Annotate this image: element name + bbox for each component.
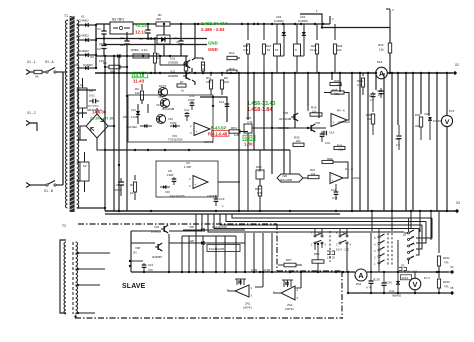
svg-text:R101: R101 — [443, 256, 450, 260]
svg-text:TG3110325: TG3110325 — [168, 138, 183, 142]
svg-text:C11: C11 — [184, 108, 189, 112]
svg-text:R100: R100 — [443, 280, 450, 284]
svg-text:+: + — [195, 183, 197, 187]
svg-text:28.8V - 47.8V: 28.8V - 47.8V — [90, 116, 115, 121]
diode V50 IN5402 — [397, 272, 399, 281]
svg-text:SLAVE: SLAVE — [122, 283, 146, 290]
svg-text:3.3k: 3.3k — [337, 83, 343, 87]
svg-text:100: 100 — [206, 80, 211, 84]
svg-text:FG2110225: FG2110225 — [209, 247, 224, 251]
svg-text:2V10: 2V10 — [402, 276, 409, 280]
svg-text:220: 220 — [120, 43, 125, 47]
wire T2 taps — [76, 252, 81, 254]
svg-text:1N4002: 1N4002 — [79, 34, 89, 38]
svg-text:X1 - 1: X1 - 1 — [27, 60, 36, 64]
wire routing nest — [232, 214, 432, 218]
diode V18 FG2110225 — [160, 186, 163, 188]
wire rectifier output — [95, 25, 97, 68]
svg-text:C21: C21 — [148, 263, 154, 267]
resistor R9 100 — [221, 73, 223, 76]
svg-text:R7: R7 — [180, 80, 184, 84]
svg-text:X4: X4 — [450, 265, 454, 269]
resistor R28 12k — [334, 24, 336, 40]
relay coil K2b — [296, 24, 298, 44]
svg-text:Pv 2: Pv 2 — [424, 276, 430, 280]
svg-text:RP7: RP7 — [286, 258, 292, 262]
wire rail jog — [300, 14, 322, 28]
svg-text:C1: C1 — [97, 27, 101, 31]
svg-text:C3: C3 — [120, 36, 124, 40]
op-amp N4-A LM324 — [331, 114, 347, 127]
terminal X1-3 — [26, 183, 30, 188]
diode F7 — [170, 125, 173, 127]
svg-text:C2: C2 — [97, 47, 101, 51]
svg-text:K.: K. — [295, 48, 298, 52]
boundary contacts dashed — [329, 231, 331, 262]
svg-text:TL431: TL431 — [146, 37, 155, 41]
svg-text:R24: R24 — [337, 144, 343, 148]
svg-text:PA1: PA1 — [377, 60, 383, 64]
svg-text:+: + — [332, 179, 334, 183]
svg-text:11.43: 11.43 — [133, 79, 145, 84]
svg-text:1N4002: 1N4002 — [298, 19, 308, 23]
svg-text:+2.13: +2.13 — [135, 23, 147, 28]
svg-text:4.7k: 4.7k — [247, 120, 253, 124]
svg-text:GND: GND — [208, 47, 218, 52]
svg-text:V4: V4 — [74, 63, 78, 67]
label 2V10 — [401, 275, 412, 280]
svg-text:14.18: 14.18 — [133, 73, 145, 78]
svg-text:0C28: 0C28 — [373, 278, 380, 282]
svg-text:V48: V48 — [135, 246, 141, 250]
svg-text:+: + — [333, 121, 335, 125]
svg-text:430: 430 — [156, 17, 161, 21]
svg-text:LM741: LM741 — [285, 307, 294, 311]
svg-text:3DG100B: 3DG100B — [162, 107, 174, 111]
node annotation red 0.1-0.48 — [212, 131, 230, 137]
svg-text:X5: X5 — [450, 286, 454, 290]
svg-text:R 0.1-0.48: R 0.1-0.48 — [208, 131, 228, 136]
wire bus verticals left — [104, 56, 106, 211]
diode V8 — [96, 55, 117, 57]
svg-text:15.2k: 15.2k — [310, 48, 317, 52]
svg-text:1k: 1k — [202, 67, 206, 71]
svg-text:2N: 2N — [133, 251, 137, 255]
boundary slave dash-dot — [78, 223, 277, 225]
wire v16 box — [156, 161, 218, 197]
wire bridge connections — [87, 112, 97, 114]
svg-text:3CG100B: 3CG100B — [279, 117, 291, 121]
svg-text:12k: 12k — [337, 48, 342, 52]
svg-text:K2: K2 — [83, 164, 87, 168]
svg-text:51: 51 — [267, 48, 271, 52]
wire v15 to n4a — [252, 127, 326, 129]
svg-text:T2: T2 — [62, 224, 66, 228]
svg-text:X2: X2 — [455, 63, 459, 67]
wire top rail + — [96, 23, 110, 25]
resistor R15 3.3k — [247, 24, 249, 40]
svg-text:130P: 130P — [167, 173, 174, 177]
wire slave bus — [131, 271, 340, 273]
svg-text:3DG100B: 3DG100B — [280, 178, 292, 182]
svg-text:V13: V13 — [156, 103, 161, 107]
svg-text:+: + — [196, 130, 198, 134]
svg-text:3A: 3A — [35, 75, 39, 79]
svg-text:V26: V26 — [283, 111, 289, 115]
svg-text:10k: 10k — [296, 139, 301, 143]
svg-text:A: A — [379, 71, 384, 78]
svg-text:2.2: 2.2 — [370, 98, 374, 102]
svg-text:R38: R38 — [415, 113, 421, 117]
wire primary left — [62, 72, 64, 185]
svg-text:R32: R32 — [378, 43, 384, 47]
svg-text:2.486 - 2.83: 2.486 - 2.83 — [201, 27, 225, 32]
wire secondary taps — [77, 24, 82, 26]
svg-text:L17 02: L17 02 — [327, 256, 335, 260]
fuse F1 — [34, 70, 42, 73]
svg-text:C13: C13 — [219, 100, 225, 104]
svg-text:4700: 4700 — [114, 188, 121, 192]
svg-text:LM741: LM741 — [243, 306, 252, 310]
svg-text:V: V — [413, 282, 418, 289]
svg-text:V39: V39 — [315, 121, 320, 125]
svg-text:T1: T1 — [64, 14, 68, 18]
wire mid rail — [105, 149, 290, 151]
opamp 2N1 input network — [236, 279, 238, 285]
wire top-right link — [322, 27, 390, 29]
wire slave opamp bits — [262, 271, 264, 273]
wire n4c loop — [303, 177, 308, 179]
svg-text:1.418-1.84: 1.418-1.84 — [247, 107, 272, 113]
svg-text:R21: R21 — [310, 168, 316, 172]
svg-text:V33: V33 — [189, 225, 194, 229]
svg-text:GND: GND — [208, 41, 218, 46]
resistor R6a — [185, 56, 187, 62]
svg-text:R5B2 - 4 2A: R5B2 - 4 2A — [131, 48, 147, 52]
wire top-right pin3 — [389, 9, 391, 28]
svg-text:V11: V11 — [131, 108, 136, 112]
resistor R11 100 — [210, 73, 212, 76]
svg-text:2N3055: 2N3055 — [168, 74, 179, 78]
svg-text:V43: V43 — [154, 225, 160, 229]
svg-text:2N3055: 2N3055 — [152, 255, 162, 259]
wire opamp feed — [200, 97, 227, 122]
svg-text:0.01: 0.01 — [332, 196, 338, 200]
svg-text:PV1: PV1 — [449, 109, 455, 113]
svg-text:1.30P: 1.30P — [184, 165, 191, 169]
svg-text:C14: C14 — [329, 131, 335, 135]
wire bottom rail — [348, 292, 450, 294]
svg-text:RP6: RP6 — [314, 252, 320, 256]
wire V15 block box — [128, 95, 213, 142]
svg-text:2N3055: 2N3055 — [168, 61, 179, 65]
svg-text:0.25: 0.25 — [245, 136, 254, 141]
resistor R25 15.2k — [316, 24, 318, 40]
wire right verticals — [351, 73, 353, 211]
svg-text:C13: C13 — [219, 197, 225, 201]
svg-text:C5: C5 — [89, 89, 93, 93]
svg-text:N3 78F2: N3 78F2 — [112, 18, 124, 22]
svg-text:2.499-34.47 *: 2.499-34.47 * — [201, 21, 228, 26]
svg-text:V3: V3 — [90, 55, 94, 59]
svg-text:S1 - B: S1 - B — [44, 189, 53, 193]
resistor R7 1k — [177, 84, 186, 87]
svg-text:R12: R12 — [229, 51, 235, 55]
capacitor C2 130 — [103, 39, 105, 46]
wire GND rail 2 — [105, 44, 207, 46]
wire base feed — [160, 64, 186, 66]
wire slave right verticals — [347, 272, 349, 293]
svg-text:1N4002: 1N4002 — [79, 49, 89, 53]
svg-text:D3: D3 — [401, 264, 405, 268]
svg-text:V14: V14 — [158, 95, 163, 99]
svg-text:V29: V29 — [282, 174, 287, 178]
svg-text:S1 - A: S1 - A — [45, 60, 55, 64]
op-amp V16 LM741 — [193, 176, 208, 189]
op-amp 2N1 LM741 — [235, 285, 249, 297]
svg-text:K1: K1 — [275, 48, 279, 52]
transformer T1 secondary winding — [77, 20, 79, 208]
transistor V12 — [156, 114, 165, 123]
svg-text:1N4002: 1N4002 — [79, 19, 89, 23]
voltmeter PV2 — [409, 278, 421, 290]
capacitor C 0.01 — [321, 131, 323, 134]
transistor V29 3DG100B — [277, 174, 303, 182]
svg-text:4.99: 4.99 — [264, 269, 270, 273]
svg-text:12k: 12k — [379, 48, 384, 52]
svg-text:R38: R38 — [332, 88, 338, 92]
svg-text:FG2110225: FG2110225 — [212, 225, 227, 229]
svg-text:1N4002: 1N4002 — [274, 19, 284, 23]
opamp 2N2 input network — [283, 280, 285, 287]
svg-text:47k: 47k — [444, 261, 449, 265]
svg-text:0.99: 0.99 — [251, 269, 257, 273]
svg-text:V20: V20 — [189, 239, 194, 243]
svg-text:2.2: 2.2 — [396, 143, 400, 147]
svg-text:47k: 47k — [444, 285, 449, 289]
capacitor C5a — [147, 24, 149, 30]
svg-text:2/4LM324: 2/4LM324 — [338, 120, 350, 124]
svg-text:A: A — [358, 271, 363, 280]
wire slave verticals — [181, 236, 183, 272]
wire main rail B — [95, 72, 376, 74]
svg-text:12.11: 12.11 — [135, 30, 147, 35]
wire main bus X3 — [105, 210, 457, 212]
op-amp 2N2 LM741 — [281, 286, 295, 300]
transformer T1 primary winding — [66, 20, 68, 208]
svg-text:0.01: 0.01 — [325, 141, 331, 145]
wire slave links — [131, 230, 161, 232]
transistor V39 — [310, 125, 312, 131]
relay contacts K2.0-172 — [314, 235, 316, 237]
relay coil K1 — [276, 24, 278, 44]
svg-text:100: 100 — [224, 80, 229, 84]
wire n4a loop — [344, 93, 349, 121]
wire GND rail — [96, 38, 207, 40]
wire contact feeds — [378, 263, 380, 272]
svg-text:PA2: PA2 — [356, 282, 362, 286]
resistor R18 51 — [263, 24, 265, 40]
wire nest to slave — [169, 214, 202, 231]
svg-text:10k: 10k — [135, 91, 140, 95]
svg-text:IN5402: IN5402 — [392, 294, 401, 298]
wire meter rail — [305, 271, 356, 273]
svg-text:R4 - A: R4 - A — [337, 109, 345, 113]
svg-text:V9: V9 — [139, 37, 143, 41]
svg-text:3.3k: 3.3k — [243, 48, 249, 52]
svg-text:V: V — [445, 119, 450, 126]
node annotation green 14.18 — [132, 72, 148, 78]
transistor V13 3DG100B — [160, 98, 169, 107]
svg-text:W02 - 2 1kB: W02 - 2 1kB — [123, 115, 138, 119]
wire lower row — [96, 55, 188, 57]
node annotation green 0.25 boxed — [243, 135, 255, 140]
svg-text:1.30: 1.30 — [244, 142, 253, 147]
svg-text:0.01: 0.01 — [89, 94, 95, 98]
svg-text:100P: 100P — [188, 98, 195, 102]
capacitor C3 220 — [126, 32, 128, 41]
op-amp V15 LM741 — [194, 123, 210, 136]
capacitor C1 220 — [103, 24, 105, 31]
wire nest into contacts — [314, 229, 316, 235]
svg-text:4.7k: 4.7k — [366, 286, 372, 290]
wire verticals mid — [238, 73, 240, 211]
ammeter PA2 — [355, 269, 367, 281]
svg-text:X1 - 2: X1 - 2 — [27, 111, 36, 115]
op-amp N4-C LM324 — [330, 173, 343, 184]
svg-text:X3: X3 — [456, 201, 460, 205]
